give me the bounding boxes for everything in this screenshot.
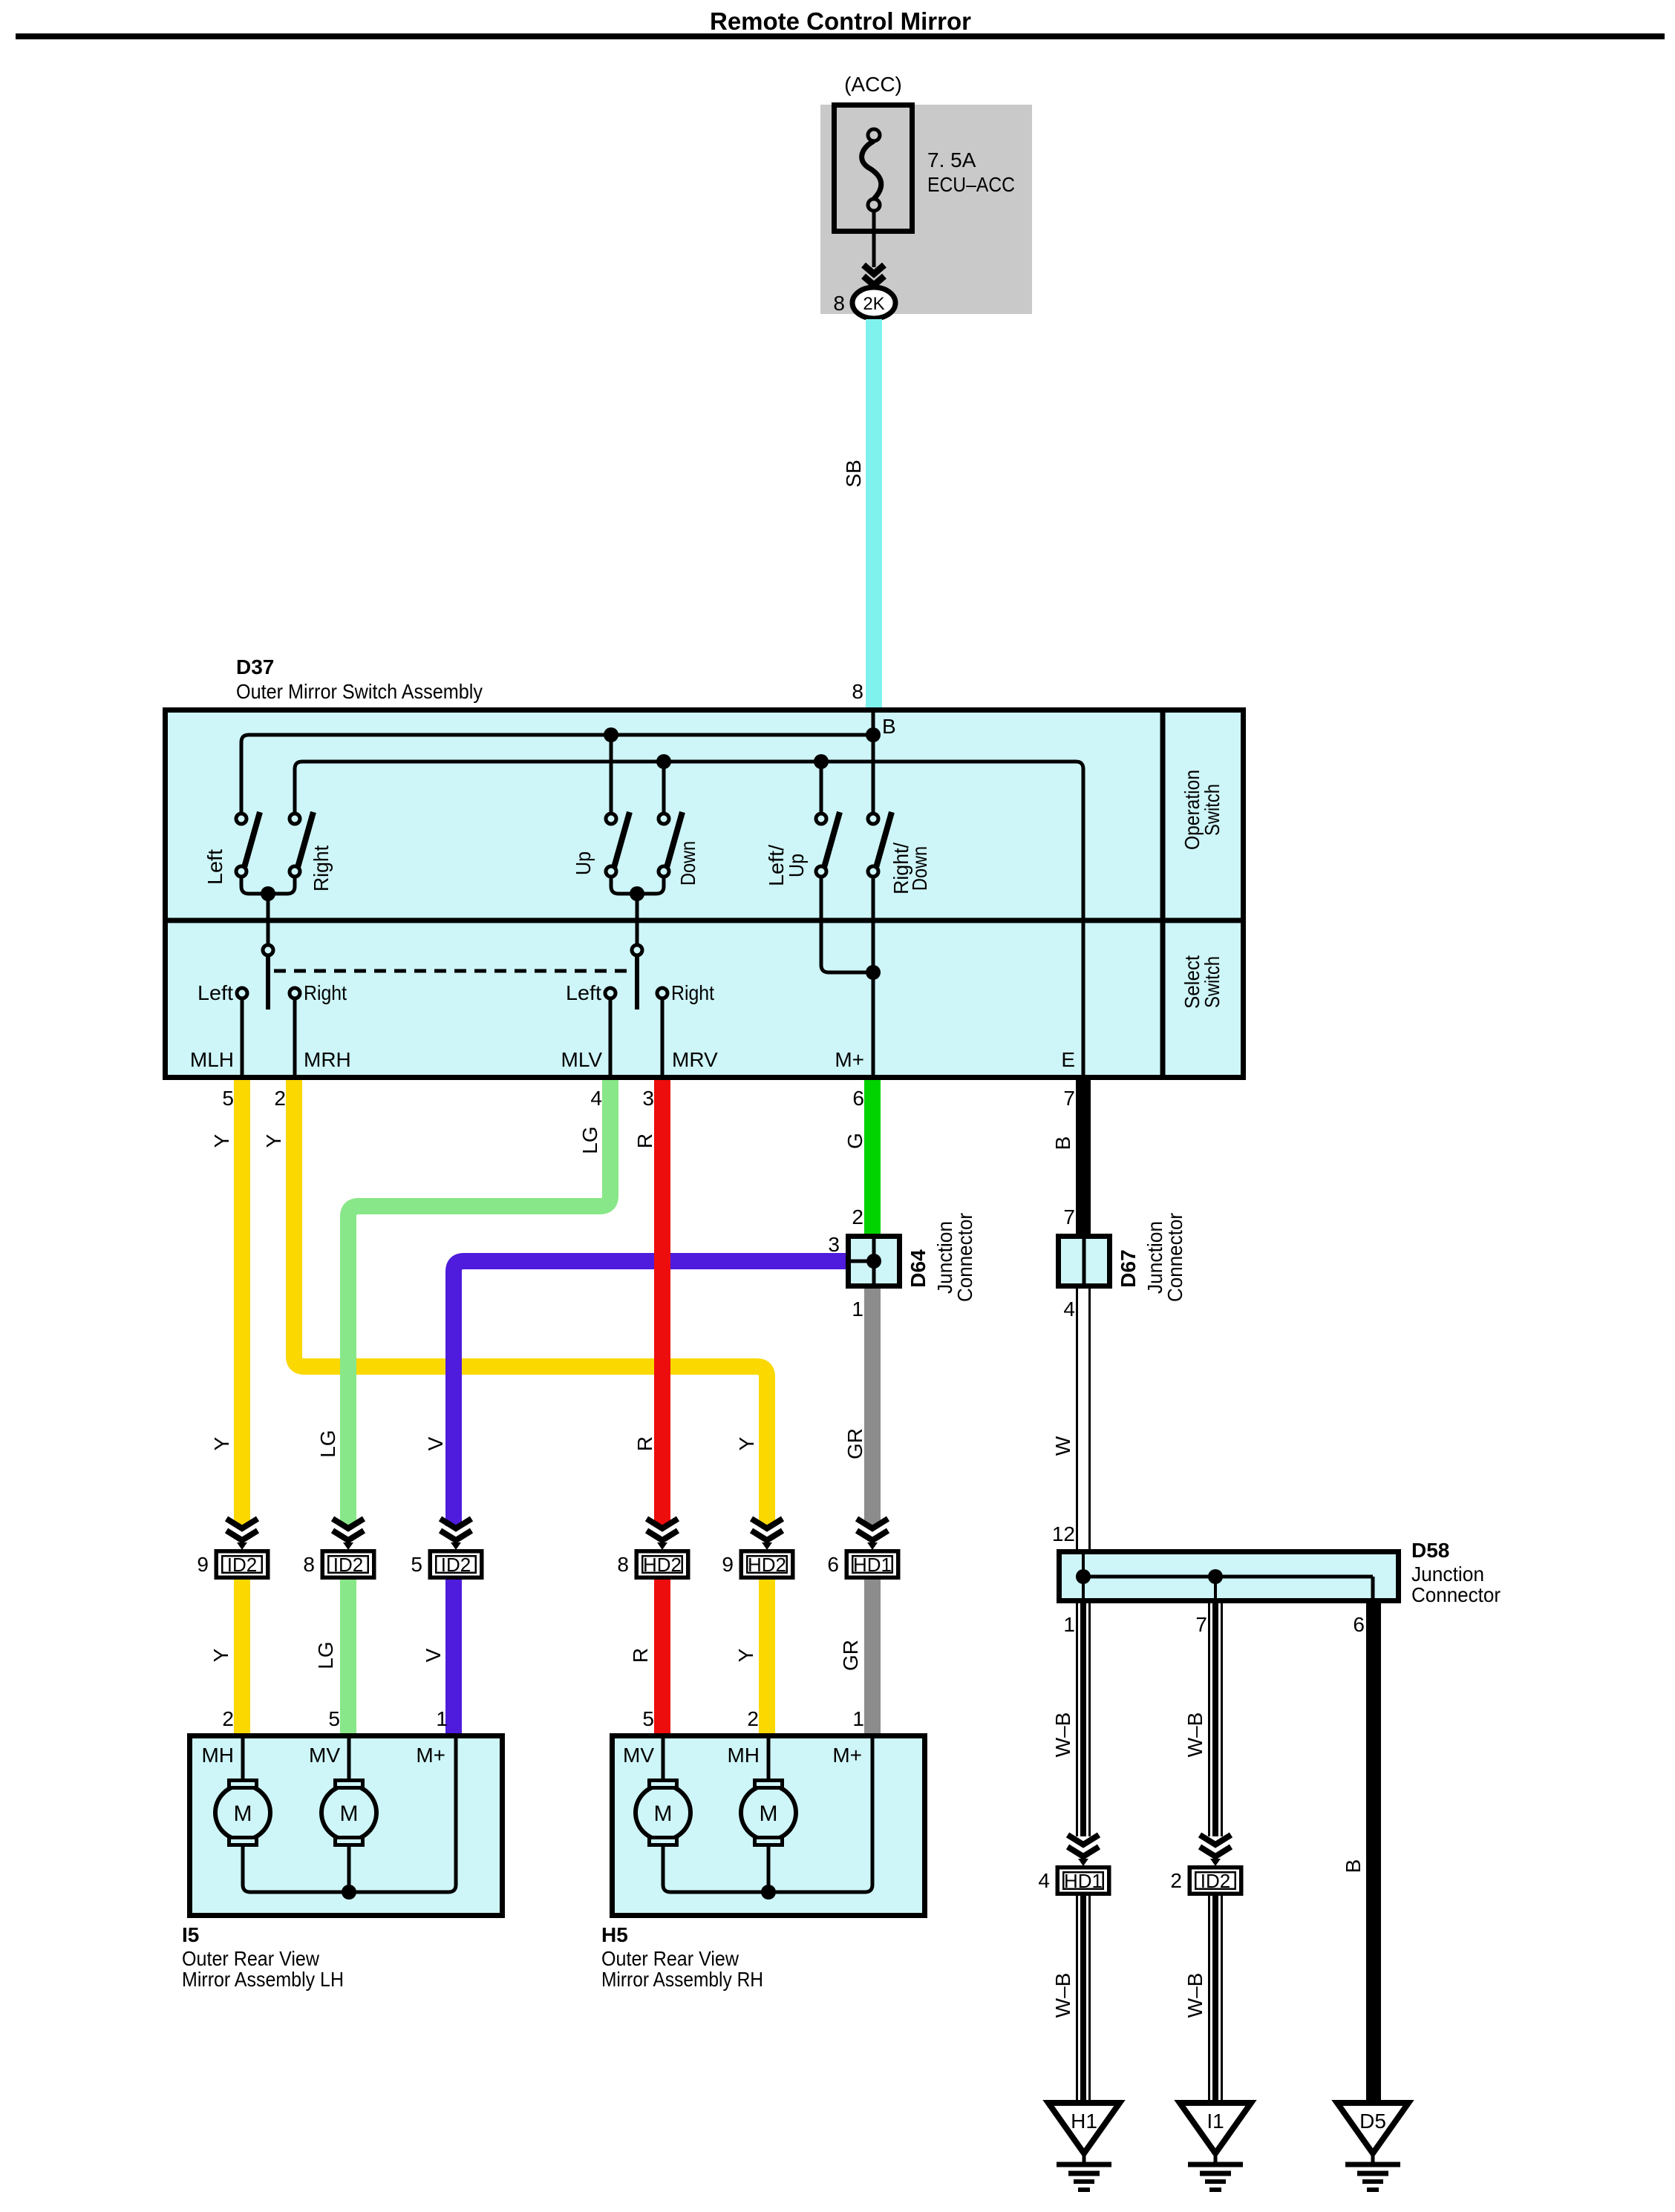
D58 pin 12 label <box>1052 1522 1075 1545</box>
motor MH (I5) <box>215 1781 270 1845</box>
svg-text:Up: Up <box>785 854 808 877</box>
D37 pin 5 <box>222 1087 234 1110</box>
I5 terminal MV <box>309 1735 349 1780</box>
svg-text:ID2: ID2 <box>333 1554 363 1576</box>
svg-text:6: 6 <box>852 1087 864 1110</box>
D37 label <box>236 655 483 703</box>
wire label R (H5) <box>629 1648 652 1663</box>
fuse 7.5A ECU-ACC <box>835 105 912 232</box>
wire Y to I5 MH <box>234 1580 250 1735</box>
wire LG to I5 MV <box>340 1580 356 1735</box>
junction of Up/Down pair to select pole 2 <box>611 877 664 945</box>
wire label LG (to ID2 8) <box>316 1430 339 1457</box>
wire label GR (to HD1 6) <box>843 1428 866 1459</box>
ground D5 <box>1337 2103 1408 2190</box>
svg-text:7. 5A: 7. 5A <box>927 148 976 171</box>
mirror pin 2 <box>747 1707 759 1730</box>
wire GR from D64 pin 1 <box>864 1289 881 1526</box>
wire label W-B (pin 1) <box>1051 1712 1074 1758</box>
svg-text:HD1: HD1 <box>853 1554 892 1576</box>
outer rear view mirror assembly LH I5 box <box>190 1736 503 1916</box>
section label Select Switch <box>1181 955 1224 1009</box>
svg-text:R: R <box>629 1648 652 1663</box>
mirror pin 5 <box>328 1707 340 1730</box>
svg-text:3: 3 <box>828 1233 840 1256</box>
svg-text:M: M <box>234 1802 252 1826</box>
svg-text:B: B <box>1342 1859 1365 1874</box>
connector HD2 pin 9 <box>722 1519 792 1577</box>
svg-text:W–B: W–B <box>1051 1973 1074 2018</box>
svg-text:4: 4 <box>1038 1869 1050 1892</box>
switch Right/Down (operation) <box>868 812 892 877</box>
mirror pin 5 <box>642 1707 654 1730</box>
ground H1 <box>1048 2103 1120 2190</box>
svg-text:Y: Y <box>734 1648 757 1662</box>
svg-text:6: 6 <box>1353 1613 1365 1636</box>
svg-text:2: 2 <box>852 1205 863 1228</box>
svg-text:Junction: Junction <box>1411 1563 1484 1586</box>
svg-text:8: 8 <box>303 1553 315 1576</box>
wire Y to H5 MH <box>759 1580 775 1735</box>
wire label LG (I5) <box>314 1641 337 1669</box>
svg-text:2K: 2K <box>863 294 884 314</box>
wire label W-B (I1) <box>1183 1973 1207 2018</box>
svg-text:4: 4 <box>590 1087 602 1110</box>
svg-text:1: 1 <box>1063 1613 1075 1636</box>
wire label GR (H5) <box>839 1640 862 1671</box>
wire from fuse to connector 2K with arrow <box>863 211 884 285</box>
svg-text:Remote Control Mirror: Remote Control Mirror <box>710 7 971 35</box>
select contact Left (pole 1, MLH) <box>197 981 247 1076</box>
junction of Left\Up-Right\Down pair to M+ <box>821 877 881 1076</box>
I5 internal common bus <box>243 1738 456 1899</box>
terminal M+ <box>835 1048 864 1071</box>
node B / internal bus from pin 8 <box>241 710 881 814</box>
svg-text:M+: M+ <box>835 1048 864 1071</box>
svg-text:7: 7 <box>1063 1087 1075 1110</box>
svg-text:2: 2 <box>1170 1869 1182 1892</box>
D58 pin 7 label <box>1195 1613 1207 1636</box>
wire label B (pin 6) <box>1342 1859 1365 1874</box>
select switch pole 1 (horizontal motors) <box>263 945 273 1010</box>
label Up <box>572 851 595 875</box>
wire W from D67 pin 4 to D58 <box>1077 1289 1090 1551</box>
wire W-B from HD1 to ground H1 <box>1077 1896 1090 2103</box>
wire label Y (I5) <box>209 1648 232 1662</box>
wire LG from MLV pin 4 <box>348 1080 610 1526</box>
svg-text:V: V <box>422 1648 445 1662</box>
wire label Y (MRH) <box>262 1133 285 1148</box>
D64 name label <box>907 1213 976 1302</box>
D67 pin 7 label <box>1063 1205 1075 1228</box>
wire B from E pin 7 to D67 <box>1076 1080 1091 1236</box>
label Left <box>203 849 226 885</box>
svg-text:Connector: Connector <box>1163 1213 1186 1302</box>
svg-text:Y: Y <box>735 1436 758 1450</box>
wire W-B from D58 pin 7 <box>1209 1603 1222 1836</box>
title underline <box>16 33 1665 39</box>
switch Up (operation) <box>606 812 630 877</box>
pin 8 label at 2K <box>833 292 845 315</box>
wire label R (to HD2 8) <box>633 1436 656 1451</box>
D64 pin 2 label <box>852 1205 863 1228</box>
svg-text:LG: LG <box>314 1641 337 1669</box>
wire label V (I5) <box>422 1648 445 1662</box>
svg-text:2: 2 <box>747 1707 759 1730</box>
mirror pin 1 <box>436 1707 448 1730</box>
junction connector D64 <box>848 1236 900 1286</box>
H5 terminal MV <box>623 1735 663 1780</box>
junction connector D58 <box>1059 1551 1399 1601</box>
section label Operation Switch <box>1181 770 1224 850</box>
label Down <box>676 841 699 886</box>
H5 name label <box>601 1923 763 1991</box>
svg-text:V: V <box>424 1436 447 1450</box>
label Right <box>310 845 333 891</box>
svg-text:D67: D67 <box>1117 1249 1140 1287</box>
svg-text:SB: SB <box>842 459 865 487</box>
svg-text:R: R <box>633 1133 656 1148</box>
D37 pin 6 <box>852 1087 864 1110</box>
D37 pin 3 <box>642 1087 654 1110</box>
svg-text:W–B: W–B <box>1051 1712 1074 1758</box>
svg-text:LG: LG <box>578 1126 601 1154</box>
svg-text:W–B: W–B <box>1183 1973 1207 2018</box>
switch Left (operation) <box>236 812 260 877</box>
connector ID2 pin 8 <box>303 1519 373 1577</box>
svg-text:W: W <box>1051 1436 1074 1456</box>
connector ID2 pin 5 <box>411 1519 481 1577</box>
svg-text:W–B: W–B <box>1183 1712 1207 1758</box>
connector HD1 pin 6 <box>827 1519 898 1577</box>
I5 terminal M+ <box>416 1735 456 1767</box>
H5 terminal M+ <box>832 1735 872 1767</box>
terminal E <box>1061 1048 1075 1071</box>
svg-text:MLV: MLV <box>561 1048 603 1071</box>
motor MV (H5) <box>636 1781 690 1845</box>
svg-text:6: 6 <box>827 1553 839 1576</box>
svg-text:M: M <box>760 1802 778 1826</box>
wire W-B from ID2 to ground I1 <box>1209 1896 1222 2103</box>
wire Y from MLH pin 5 <box>234 1080 250 1526</box>
svg-text:5: 5 <box>328 1707 340 1730</box>
svg-text:Up: Up <box>572 851 595 875</box>
ECU-ACC power supply shaded area <box>820 105 1032 314</box>
wire R from MRV pin 3 <box>654 1080 670 1526</box>
svg-text:LG: LG <box>316 1430 339 1457</box>
svg-text:9: 9 <box>197 1553 209 1576</box>
svg-text:1: 1 <box>852 1707 864 1730</box>
D67 name label <box>1117 1213 1186 1302</box>
junction of Left/Right pair to select pole 1 <box>241 877 295 945</box>
select contact Left (pole 2, MLV) <box>566 981 616 1076</box>
terminal MLV <box>561 1048 603 1071</box>
svg-text:H1: H1 <box>1071 2110 1097 2133</box>
svg-text:Outer Rear View: Outer Rear View <box>182 1947 320 1970</box>
wire label LG (MLV) <box>578 1126 601 1154</box>
svg-text:HD2: HD2 <box>748 1554 786 1576</box>
svg-text:GR: GR <box>843 1428 866 1459</box>
wire label Y (to ID2 9) <box>210 1436 233 1450</box>
ground I1 <box>1180 2103 1251 2190</box>
svg-text:1: 1 <box>852 1298 863 1321</box>
svg-text:D58: D58 <box>1411 1539 1449 1562</box>
svg-text:8: 8 <box>852 680 863 703</box>
svg-text:Right: Right <box>671 981 714 1004</box>
junction connector D67 <box>1059 1236 1110 1286</box>
svg-text:5: 5 <box>222 1087 234 1110</box>
svg-text:D5: D5 <box>1359 2110 1386 2133</box>
select switch linkage (dashed) <box>274 969 633 973</box>
wire W-B from D58 pin 1 <box>1077 1603 1090 1836</box>
title: Remote Control Mirror <box>710 7 971 35</box>
terminal MLH <box>190 1048 234 1071</box>
outer rear view mirror assembly RH H5 box <box>613 1736 925 1916</box>
svg-text:3: 3 <box>642 1087 654 1110</box>
select switch pole 2 (vertical motors) <box>632 945 642 1010</box>
svg-text:4: 4 <box>1063 1298 1075 1321</box>
svg-text:Connector: Connector <box>1411 1583 1501 1606</box>
svg-text:GR: GR <box>839 1640 862 1671</box>
wire Y from MRH pin 2 <box>294 1080 767 1526</box>
H5 internal common bus <box>663 1738 872 1899</box>
connector HD1 pin 4 <box>1038 1835 1108 1894</box>
fuse value label 7.5A ECU-ACC <box>927 148 1015 196</box>
svg-text:7: 7 <box>1195 1613 1207 1636</box>
wire label W-B (pin 7) <box>1183 1712 1207 1758</box>
svg-text:Left: Left <box>197 981 233 1004</box>
svg-text:Right: Right <box>310 845 333 891</box>
svg-text:E: E <box>1061 1048 1075 1071</box>
wire label Y (H5) <box>734 1648 757 1662</box>
wire label SB <box>842 459 865 487</box>
pin 8 label at D37 <box>852 680 863 703</box>
svg-text:Y: Y <box>210 1436 233 1450</box>
svg-text:M+: M+ <box>416 1744 445 1767</box>
H5 terminal MH <box>727 1735 768 1780</box>
wire label W <box>1051 1436 1074 1456</box>
svg-text:MRV: MRV <box>672 1048 718 1071</box>
svg-text:Mirror Assembly RH: Mirror Assembly RH <box>601 1968 763 1991</box>
wire label R (MRV) <box>633 1133 656 1148</box>
mirror pin 2 <box>222 1707 234 1730</box>
svg-text:H5: H5 <box>601 1923 628 1946</box>
svg-text:Left: Left <box>566 981 601 1004</box>
svg-text:B: B <box>1051 1136 1074 1151</box>
svg-text:R: R <box>633 1436 656 1451</box>
svg-text:1: 1 <box>436 1707 448 1730</box>
select contact Right (pole 1, MRH) <box>290 981 347 1076</box>
label B <box>882 715 896 738</box>
connector HD2 pin 8 <box>617 1519 688 1577</box>
wire label Y (to HD2 9) <box>735 1436 758 1450</box>
D64 pin 1 label <box>852 1298 863 1321</box>
svg-text:I5: I5 <box>182 1923 199 1946</box>
wire G from M+ pin 6 to D64 <box>864 1080 881 1236</box>
I5 name label <box>182 1923 344 1991</box>
svg-text:Down: Down <box>676 841 699 886</box>
svg-text:Down: Down <box>908 846 931 891</box>
label Right/Down <box>889 842 931 894</box>
svg-text:Y: Y <box>262 1133 285 1148</box>
svg-text:2: 2 <box>222 1707 234 1730</box>
switch Right (operation) <box>290 812 313 877</box>
internal bus 2 (to E) <box>295 754 1083 1076</box>
wire V from D64 pin 3 <box>454 1261 846 1526</box>
motor MV (I5) <box>321 1781 376 1893</box>
D58 name label <box>1411 1539 1501 1606</box>
D37 pin 2 <box>274 1087 286 1110</box>
svg-text:Outer Rear View: Outer Rear View <box>601 1947 739 1970</box>
svg-text:MV: MV <box>309 1744 340 1767</box>
svg-text:MRH: MRH <box>304 1048 351 1071</box>
terminal MRV <box>672 1048 718 1071</box>
wire GR to H5 M+ <box>864 1580 881 1735</box>
svg-text:ID2: ID2 <box>227 1554 257 1576</box>
svg-text:Y: Y <box>210 1133 233 1148</box>
svg-text:ID2: ID2 <box>1201 1870 1230 1892</box>
svg-text:B: B <box>882 715 896 738</box>
svg-text:Left: Left <box>203 849 226 885</box>
svg-text:I1: I1 <box>1207 2110 1224 2133</box>
svg-text:M: M <box>654 1802 673 1826</box>
svg-text:2: 2 <box>274 1087 286 1110</box>
D37 pin 7 <box>1063 1087 1075 1110</box>
select contact Right (pole 2, MRV) <box>657 981 714 1076</box>
svg-text:MV: MV <box>623 1744 654 1767</box>
svg-text:M: M <box>340 1802 359 1826</box>
svg-text:MH: MH <box>201 1744 234 1767</box>
switch Left/Up (operation) <box>816 812 840 877</box>
label (ACC) <box>844 73 902 96</box>
wire R to H5 MV <box>654 1580 670 1735</box>
svg-text:M+: M+ <box>832 1744 862 1767</box>
I5 terminal MH <box>201 1735 243 1780</box>
svg-text:ID2: ID2 <box>441 1554 471 1576</box>
mirror pin 1 <box>852 1707 864 1730</box>
svg-text:Mirror Assembly LH: Mirror Assembly LH <box>182 1968 344 1991</box>
label Left/Up <box>765 845 808 886</box>
wire B from D58 pin 6 to ground D5 <box>1366 1603 1381 2103</box>
svg-text:Outer Mirror Switch Assembly: Outer Mirror Switch Assembly <box>236 680 483 703</box>
svg-text:8: 8 <box>617 1553 629 1576</box>
D58 pin 6 label <box>1353 1613 1365 1636</box>
wire label V (to ID2 5) <box>424 1436 447 1450</box>
svg-text:ECU–ACC: ECU–ACC <box>927 173 1015 196</box>
motor MH (H5) <box>741 1781 796 1893</box>
connector ID2 pin 2 <box>1170 1835 1241 1894</box>
wire label B (E) <box>1051 1136 1074 1151</box>
wire label Y (MLH) <box>210 1133 233 1148</box>
switch Down (operation) <box>659 812 682 877</box>
wire SB (sky blue) <box>866 319 882 708</box>
wire label G <box>843 1133 866 1149</box>
svg-text:Switch: Switch <box>1201 784 1224 836</box>
svg-text:D64: D64 <box>907 1249 930 1288</box>
wire label W-B (H1) <box>1051 1973 1074 2018</box>
svg-text:(ACC): (ACC) <box>844 73 902 96</box>
D64 pin 3 label <box>828 1233 840 1256</box>
wire V to I5 M+ <box>445 1580 462 1735</box>
svg-text:G: G <box>843 1133 866 1149</box>
svg-text:5: 5 <box>642 1707 654 1730</box>
svg-text:MLH: MLH <box>190 1048 234 1071</box>
connector 2K (pin 8) <box>852 287 895 318</box>
svg-text:D37: D37 <box>236 655 274 678</box>
D37 pin 4 <box>590 1087 602 1110</box>
svg-text:HD1: HD1 <box>1064 1870 1103 1892</box>
svg-text:Switch: Switch <box>1201 956 1224 1008</box>
D67 pin 4 label <box>1063 1298 1075 1321</box>
svg-text:12: 12 <box>1052 1522 1075 1545</box>
terminal MRH <box>304 1048 351 1071</box>
svg-text:Connector: Connector <box>953 1213 976 1302</box>
svg-text:5: 5 <box>411 1553 422 1576</box>
svg-text:7: 7 <box>1063 1205 1075 1228</box>
svg-text:Right: Right <box>304 981 347 1004</box>
connector ID2 pin 9 <box>197 1519 267 1577</box>
svg-text:8: 8 <box>833 292 845 315</box>
D58 pin 1 label <box>1063 1613 1075 1636</box>
svg-text:HD2: HD2 <box>643 1554 682 1576</box>
svg-text:MH: MH <box>727 1744 760 1767</box>
outer mirror switch assembly D37 box <box>165 710 1244 1078</box>
svg-text:Y: Y <box>209 1648 232 1662</box>
svg-text:9: 9 <box>722 1553 734 1576</box>
